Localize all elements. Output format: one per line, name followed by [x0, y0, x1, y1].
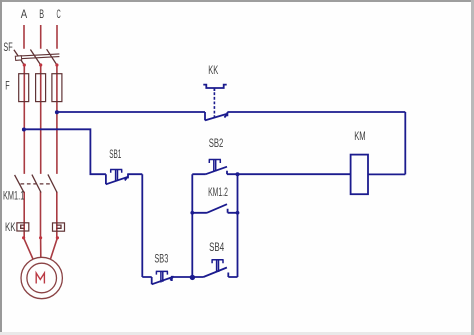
svg-text:KK: KK	[208, 63, 218, 77]
svg-text:SB4: SB4	[209, 240, 224, 254]
svg-text:B: B	[39, 7, 44, 21]
svg-text:KK: KK	[5, 220, 16, 234]
svg-text:KM: KM	[354, 129, 366, 143]
svg-text:C: C	[57, 7, 61, 21]
svg-text:F: F	[5, 79, 9, 93]
svg-text:SB1: SB1	[109, 147, 121, 161]
svg-text:KM1.2: KM1.2	[208, 185, 228, 199]
svg-text:KM1.1: KM1.1	[3, 188, 24, 202]
svg-text:A: A	[21, 7, 27, 21]
svg-text:SF: SF	[3, 40, 12, 54]
svg-text:SB2: SB2	[209, 136, 224, 150]
svg-text:SB3: SB3	[154, 251, 168, 265]
